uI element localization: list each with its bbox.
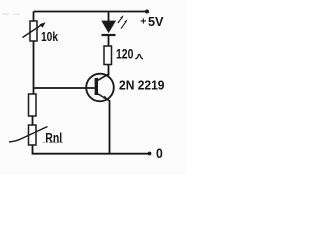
svg-text:Rnl: Rnl <box>45 131 62 146</box>
resistor R3 120 ohm <box>104 46 112 65</box>
wire: emitter down to bottom rail <box>109 100 111 155</box>
svg-text:+: + <box>140 15 146 27</box>
wire: 120 ohm to collector <box>108 65 110 76</box>
thermistor Rnl <box>9 125 48 145</box>
wire: top rail from 10k to +5V terminal <box>34 11 148 13</box>
LED D1 <box>102 21 116 35</box>
wire: Rnl bottom corner to bottom rail <box>33 145 151 154</box>
node: 0V terminal dot <box>148 152 152 156</box>
wire: LED anode from top rail <box>108 12 110 22</box>
svg-text:0: 0 <box>156 145 163 161</box>
node: +5V terminal dot <box>145 10 149 14</box>
wire: top rail corner down to 10k top <box>33 12 35 22</box>
potentiometer R1 10k <box>23 21 46 41</box>
svg-text:120: 120 <box>116 46 134 62</box>
wire: LED cathode to 120 ohm resistor <box>108 35 110 46</box>
svg-text:10k: 10k <box>41 30 58 44</box>
svg-text:5V: 5V <box>148 14 164 29</box>
resistor R2 (unlabeled, upper left branch) <box>29 94 37 116</box>
wire: between R2 and Rnl <box>32 116 34 125</box>
transistor Q1 2N2219 <box>86 74 114 102</box>
LED light arrows <box>118 15 128 29</box>
wire: left vertical from 10k down to resistor R2 <box>33 41 35 94</box>
wire: base wire from left branch to transistor <box>34 87 95 89</box>
scan artifacts (decorative) <box>2 13 20 16</box>
svg-text:2N 2219: 2N 2219 <box>119 77 165 92</box>
